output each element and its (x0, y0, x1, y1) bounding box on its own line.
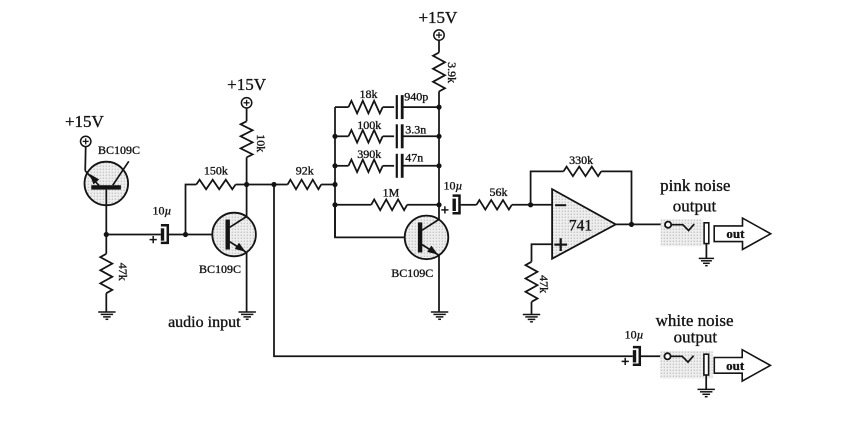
resistor R5 18k (349, 101, 383, 114)
svg-text:BC109C: BC109C (98, 143, 140, 157)
wire C1 to node B (169, 234, 186, 236)
wire Q1 base to node A (105, 190, 107, 235)
wire node D to R4 (274, 184, 288, 186)
svg-text:741: 741 (569, 217, 592, 234)
svg-text:940p: 940p (404, 90, 428, 104)
node C junction (244, 182, 249, 187)
resistor R7 390k (349, 160, 383, 173)
wire R7 to C6 (383, 165, 394, 167)
wire op-amp output (616, 223, 665, 225)
svg-text:out: out (726, 358, 745, 373)
wire R9 to node I (438, 92, 440, 108)
ground op-amp bias (523, 315, 540, 322)
wire C3 to jack J2 (641, 355, 664, 357)
wire Q2 emitter to ground (246, 253, 248, 313)
resistor R4 92k (288, 180, 322, 190)
svg-text:10k: 10k (254, 134, 268, 152)
node H junction (1M row left) (332, 202, 337, 207)
arrow out (white) (714, 350, 770, 381)
ground Q2 emitter (239, 312, 256, 319)
power terminal +15V (left) (81, 136, 91, 146)
jack J1 sleeve (704, 223, 709, 259)
node J junction (row2 right) (436, 134, 441, 139)
resistor R11 330k feedback (564, 167, 602, 177)
wire R1 to ground (105, 293, 107, 312)
svg-text:47k: 47k (116, 263, 130, 281)
jack J2 sleeve (704, 354, 709, 389)
node E junction (92k entry) (332, 182, 337, 187)
node N junction (output) (629, 222, 634, 227)
resistor R8 1M (371, 199, 407, 210)
resistor R2 150k feedback (196, 180, 235, 190)
wire +15V to Q1 emitter (84, 147, 87, 171)
svg-text:47n: 47n (405, 151, 423, 165)
svg-text:+15V: +15V (227, 75, 267, 94)
resistor R6 100k (349, 130, 383, 143)
wire R10 to op-amp inverting input (512, 204, 552, 206)
wire C5 to right rail (403, 135, 439, 137)
jack J2 tip contact (664, 353, 693, 362)
capacitor C2 10&#181; electrolytic (441, 196, 459, 214)
ground Q3 emitter (431, 312, 448, 319)
jack J1 shading (661, 219, 703, 246)
node A junction (104, 232, 109, 237)
power terminal +15V (middle) (241, 98, 251, 108)
wire R2 to node C (236, 184, 247, 186)
svg-text:10µ: 10µ (152, 204, 171, 218)
wire Q3 collector to node L (438, 205, 440, 220)
jack J1 tip contact (665, 222, 694, 231)
wire C6 to right rail (403, 165, 439, 167)
svg-text:92k: 92k (296, 164, 314, 178)
resistor R9 3.9k (433, 53, 445, 92)
ground Q1 bias network (98, 312, 115, 319)
wire node A to R1 (105, 235, 107, 254)
wire white noise tap (274, 185, 633, 357)
svg-text:1M: 1M (383, 186, 400, 200)
arrow out (pink) (714, 218, 771, 249)
node I junction (row1 right) (436, 105, 441, 110)
wire node B to R2 150k (186, 185, 197, 235)
wire R6 to C5 (383, 135, 394, 137)
svg-text:BC109C: BC109C (391, 266, 433, 280)
svg-text:3.3n: 3.3n (405, 122, 426, 136)
wire rail to R7 390k (335, 165, 349, 167)
resistor R3 10k collector load (241, 121, 253, 157)
ground jack J2 (698, 389, 715, 396)
resistor R10 56k (477, 200, 512, 210)
wire R3 to node C (246, 157, 248, 184)
svg-text:47k: 47k (537, 275, 551, 293)
wire rail to R5 18k (335, 106, 349, 108)
capacitor C1 10&#181; electrolytic (150, 225, 168, 243)
power terminal +15V (top) (434, 30, 444, 40)
capacitor C6 47n (397, 154, 402, 178)
transistor Q1 BC109C noise source (85, 161, 129, 205)
wire R8 to node L (407, 204, 439, 206)
svg-text:56k: 56k (490, 185, 508, 199)
capacitor C4 940p (397, 95, 402, 119)
wire node A to C1 (106, 234, 161, 236)
transistor Q2 BC109C amplifier (212, 213, 256, 257)
node L junction (Q3 collector node) (436, 202, 441, 207)
wire rail to Q3 base (335, 205, 418, 238)
wire node B to Q2 base (186, 234, 226, 236)
filter ladder left rail wire (334, 107, 336, 237)
wire R4 to filter rail (321, 184, 335, 186)
wire node C to Q2 collector (246, 185, 248, 217)
svg-text:+15V: +15V (418, 8, 458, 27)
node G junction (row3 left) (332, 163, 337, 168)
svg-text:100k: 100k (357, 118, 381, 132)
capacitor C3 10&#181; electrolytic (622, 347, 640, 365)
svg-text:10µ: 10µ (625, 328, 644, 342)
wire feedback riser (531, 171, 564, 204)
wire +15V to R3 (246, 108, 248, 121)
svg-text:150k: 150k (204, 164, 228, 178)
svg-text:BC109C: BC109C (199, 262, 241, 276)
wire R5 to C4 (383, 106, 394, 108)
wire C2 to R10 (461, 204, 477, 206)
transistor Q3 BC109C (405, 216, 449, 260)
wire R11 to output node (601, 171, 631, 224)
capacitor C5 3.3n (397, 124, 402, 148)
svg-text:3.9k: 3.9k (445, 62, 459, 83)
wire non-inverting input to R12 (532, 244, 553, 262)
svg-text:audio input: audio input (168, 314, 241, 331)
svg-text:pink noise: pink noise (660, 176, 730, 195)
op-amp U1 741 (552, 189, 616, 259)
node M junction (528, 202, 533, 207)
node K junction (row3 right) (436, 163, 441, 168)
svg-text:10µ: 10µ (444, 179, 463, 193)
wire R12 to ground (531, 302, 533, 315)
resistor R1 47k (100, 254, 112, 293)
wire rail to R8 1M (335, 204, 371, 206)
node F junction (row2 left) (332, 134, 337, 139)
wire C4 to right rail (403, 106, 439, 108)
node B junction (183, 232, 188, 237)
filter right rail wire (438, 107, 440, 205)
svg-text:330k: 330k (569, 153, 593, 167)
svg-text:390k: 390k (357, 147, 381, 161)
svg-text:18k: 18k (360, 87, 378, 101)
wire rail to R6 100k (335, 135, 349, 137)
wire node C to node D (247, 184, 274, 186)
svg-text:+15V: +15V (65, 112, 105, 131)
wire +15V to R9 (438, 40, 440, 52)
svg-text:out: out (726, 226, 745, 241)
svg-text:output: output (674, 328, 718, 347)
jack J2 shading (660, 351, 712, 379)
svg-text:output: output (673, 197, 717, 216)
resistor R12 47k (526, 262, 538, 302)
ground jack J1 (699, 258, 714, 265)
node D junction (white noise tap) (271, 182, 276, 187)
wire Q3 emitter to ground (438, 255, 440, 312)
